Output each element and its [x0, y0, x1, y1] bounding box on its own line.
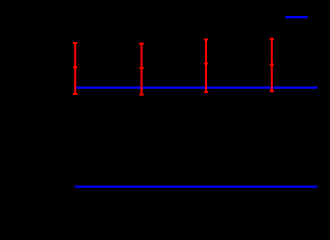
errorbar 3: [204, 39, 208, 93]
errorbar 4: [270, 38, 274, 92]
errorbar 1: [73, 42, 77, 95]
errorbar 2: [139, 43, 143, 96]
legend line f(x): [285, 16, 308, 18]
upper blue function line: [75, 86, 318, 88]
lower blue function line: [75, 186, 318, 188]
